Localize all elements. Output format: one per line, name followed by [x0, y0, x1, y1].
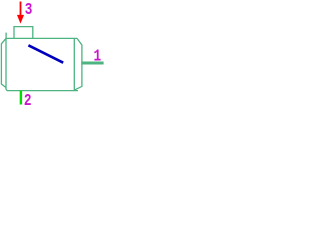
press arrow head [17, 15, 23, 23]
internal lever [28, 45, 63, 62]
pin 2 [20, 91, 22, 105]
switch body bottom-left chamfer [6, 89, 7, 91]
pin 1 [81, 62, 103, 65]
orientation stub above top-left corner [5, 33, 7, 39]
switch body bottom edge [7, 90, 78, 92]
switch body left inner edge [5, 38, 7, 89]
svg-text:3: 3 [25, 0, 33, 19]
switch body right bulge [75, 38, 82, 90]
switch body top edge [6, 37, 78, 39]
svg-text:2: 2 [24, 90, 32, 110]
svg-text:1: 1 [94, 46, 102, 66]
button actuator [14, 27, 33, 39]
switch body right inner edge [73, 38, 75, 90]
press arrow shaft (pin 3) [20, 2, 22, 17]
switch body left bulge [1, 38, 6, 87]
